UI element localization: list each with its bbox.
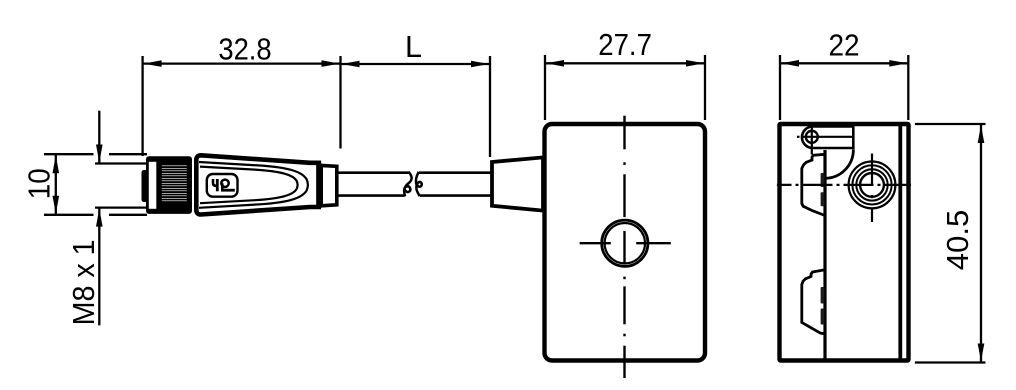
connector body end line — [316, 162, 321, 209]
dimension L — [341, 56, 491, 157]
side view rings vertical crosshair — [871, 154, 873, 223]
side view face plate line — [898, 126, 902, 359]
connector thread tip cap — [142, 170, 150, 202]
connector molded body — [196, 155, 318, 214]
svg-text:L: L — [405, 30, 422, 64]
cable right segment — [419, 171, 492, 174]
cable gland — [492, 157, 543, 210]
svg-text:40.5: 40.5 — [941, 210, 975, 271]
label M8 x 1 with leader — [95, 111, 146, 326]
front view horizontal center mark — [580, 242, 671, 244]
dimension 32.8 — [143, 56, 341, 156]
sensor housing front view — [545, 124, 706, 361]
dimension 22 — [780, 55, 908, 120]
side view screw crosshair — [797, 126, 853, 155]
connector logo mark — [213, 179, 235, 191]
connector collar — [321, 165, 337, 205]
connector nut front white band — [149, 162, 157, 209]
dimension 27.7 — [545, 55, 705, 120]
cable left segment — [337, 171, 409, 174]
dimension 10 — [44, 154, 147, 215]
side view clamp rail line — [823, 150, 826, 359]
svg-text:22: 22 — [828, 28, 859, 62]
dimension 40.5 — [915, 124, 986, 363]
front view fixing hole — [602, 220, 648, 266]
side view corner arc — [825, 150, 853, 179]
side view top clamp profile — [802, 154, 825, 215]
connector strain-relief groove outer — [199, 162, 308, 208]
cable break squiggle left — [404, 172, 412, 197]
connector knurl stripes — [162, 166, 187, 201]
connector knurled nut — [146, 156, 192, 214]
cable break squiggle right — [416, 172, 422, 197]
side view bottom clamp profile — [802, 270, 825, 334]
connector logo plate — [207, 174, 238, 197]
side view bottom clamp slots — [821, 287, 825, 304]
svg-text:27.7: 27.7 — [598, 28, 652, 62]
svg-text:32.8: 32.8 — [218, 33, 271, 67]
side view top tab — [802, 125, 853, 149]
side view top clamp slots — [821, 173, 825, 187]
sensor housing side view — [780, 124, 909, 361]
side view screw circle — [806, 131, 818, 143]
side view horizontal centerline — [777, 184, 911, 186]
front view vertical centerline — [623, 116, 625, 378]
connector strain-relief groove inner — [200, 167, 298, 204]
svg-text:10: 10 — [22, 168, 56, 199]
svg-text:M8 x 1: M8 x 1 — [67, 239, 101, 325]
side view sensing rings — [849, 162, 896, 209]
